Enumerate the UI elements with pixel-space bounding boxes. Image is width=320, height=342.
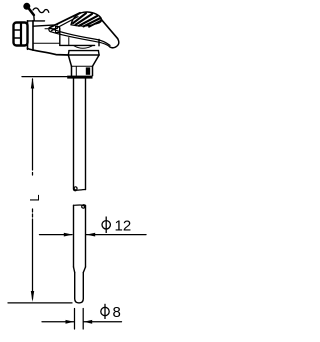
svg-text:12: 12: [115, 218, 132, 235]
svg-text:8: 8: [113, 304, 121, 321]
svg-text:L: L: [27, 194, 42, 201]
